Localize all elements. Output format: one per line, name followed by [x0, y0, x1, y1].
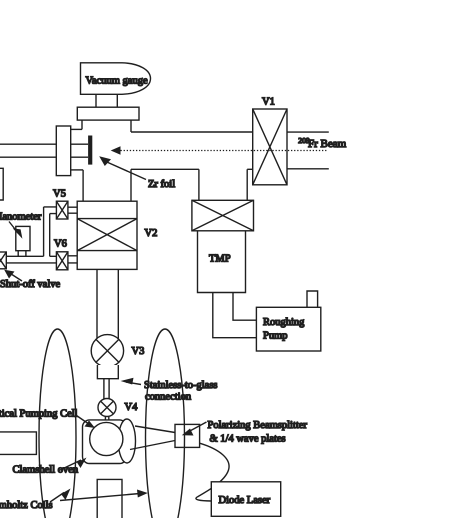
beamsplitter pointer arrow [188, 422, 207, 432]
svg-text:Optical Pumping Cell: Optical Pumping Cell [0, 409, 78, 420]
pipe from flange to Zr foil (top wall) [71, 143, 88, 145]
valve V6 [56, 252, 68, 270]
coils long pointer arrow [60, 494, 140, 501]
Zr foil pointer arrow [104, 161, 147, 180]
V5 right stubs [68, 207, 77, 213]
valve V5 [56, 201, 68, 219]
V2 chamber inner bottom line [77, 250, 137, 252]
fiber from beamsplitter to diode laser [196, 443, 229, 501]
roughing pump box [256, 307, 320, 351]
beam line cell to beamsplitter upper [135, 426, 175, 433]
V1 right pipe top wall [287, 131, 329, 133]
svg-text:Stainless-to-glass: Stainless-to-glass [144, 380, 218, 391]
cell sphere [90, 422, 123, 455]
lower connector flange to chamber [71, 169, 83, 171]
left edge stub box upper [0, 168, 3, 200]
V1 right pipe bottom wall [287, 168, 329, 170]
pipe V2 chamber down to V3 (right wall) [117, 269, 119, 340]
stainless-to-glass pointer arrow [126, 382, 141, 385]
connector flange-top to left flange [71, 128, 82, 130]
stem V4 to cell [105, 416, 108, 423]
svg-text:Polarizing Beamsplitter: Polarizing Beamsplitter [208, 420, 308, 431]
svg-text:connection: connection [145, 392, 192, 403]
beam line cell to beamsplitter lower [130, 441, 175, 450]
svg-text:209: 209 [298, 136, 310, 145]
chamber left vertical to V2 chamber [82, 170, 84, 201]
vacuum gauge flange [77, 107, 139, 120]
beam arrowhead [111, 146, 121, 155]
svg-text:V4: V4 [125, 402, 139, 413]
manometer riser right wall [49, 214, 51, 257]
TMP to pump pipe outer wall [213, 293, 257, 338]
V5 left stubs [44, 207, 57, 214]
V6 right stubs [68, 256, 77, 263]
TMP to pump pipe inner wall [233, 293, 256, 321]
svg-text:V2: V2 [145, 228, 158, 239]
beam pipe top wall to V1 [131, 131, 253, 133]
bottom wall segment to V1 [247, 168, 253, 170]
svg-text:TMP: TMP [209, 254, 231, 265]
svg-text:V1: V1 [262, 97, 275, 108]
svg-text:V3: V3 [132, 346, 145, 357]
bottom pole rect [97, 479, 122, 518]
polarizing beamsplitter box [175, 424, 200, 447]
beam dashed line [121, 150, 328, 152]
left flange (tall rect) [56, 126, 70, 176]
left beam pipe to image edge (top wall) [0, 143, 56, 145]
Zr foil [88, 136, 92, 165]
glass tube [104, 379, 109, 400]
TMP body [198, 231, 246, 293]
svg-text:Zr foil: Zr foil [148, 179, 175, 190]
oven pointer arrow [58, 460, 81, 471]
clamshell oven body [83, 420, 127, 464]
chamber neck right vertical [130, 120, 132, 132]
svg-text:Fr Beam: Fr Beam [308, 138, 347, 150]
roughing pump chimney [307, 291, 318, 307]
svg-text:& 1/4 wave plates: & 1/4 wave plates [210, 434, 286, 445]
svg-text:V5: V5 [53, 189, 66, 200]
cell right window ellipse [118, 419, 135, 463]
diode laser box [211, 482, 280, 517]
svg-text:Manometer: Manometer [0, 212, 42, 223]
svg-text:Shut-off valve: Shut-off valve [0, 279, 61, 290]
TMP gate valve [192, 200, 254, 231]
valve V4 [98, 399, 116, 417]
svg-text:Diode Laser: Diode Laser [219, 495, 271, 506]
manometer stubs [18, 251, 26, 257]
vacuum gauge body [81, 63, 151, 95]
svg-text:Roughing: Roughing [263, 317, 305, 328]
shut-off valve pointer arrow [8, 272, 22, 281]
pipe from flange to Zr foil (bottom wall) [71, 156, 88, 158]
chamber right vertical to V2 chamber [130, 169, 132, 201]
left edge stub box lower [0, 432, 36, 455]
left beam pipe to image edge (bottom wall) [0, 156, 56, 158]
svg-text:V6: V6 [54, 239, 67, 250]
V2 chamber box [77, 201, 137, 269]
vacuum gauge stem [96, 95, 117, 108]
manometer riser left wall [43, 207, 45, 256]
cell pointer arrow [75, 415, 91, 426]
shut-off valve [0, 252, 6, 269]
valve V3 [91, 335, 123, 367]
svg-text:Vacuum gauge: Vacuum gauge [86, 76, 148, 87]
svg-text:Pump: Pump [263, 331, 288, 342]
manometer pointer arrow [9, 222, 19, 234]
pipe V2 chamber down to V3 (left wall) [96, 269, 98, 340]
Helmholtz coil right [146, 329, 185, 518]
coils short pointer arrow [50, 493, 64, 503]
manometer pipe bottom wall [6, 262, 56, 264]
svg-text:Helmholtz Coils: Helmholtz Coils [0, 500, 53, 511]
Helmholtz coil left [39, 329, 76, 518]
beam pipe bottom wall to TMP branch [131, 168, 199, 170]
V2 chamber inner top line [77, 218, 137, 220]
box below V3 [97, 365, 118, 379]
V2 chamber X [77, 219, 137, 251]
TMP branch left wall [198, 169, 200, 200]
manometer box [16, 226, 30, 250]
TMP branch right wall [246, 169, 248, 200]
chamber neck left vertical [81, 120, 83, 129]
manometer pipe top wall [6, 255, 56, 257]
valve V1 [253, 109, 287, 185]
